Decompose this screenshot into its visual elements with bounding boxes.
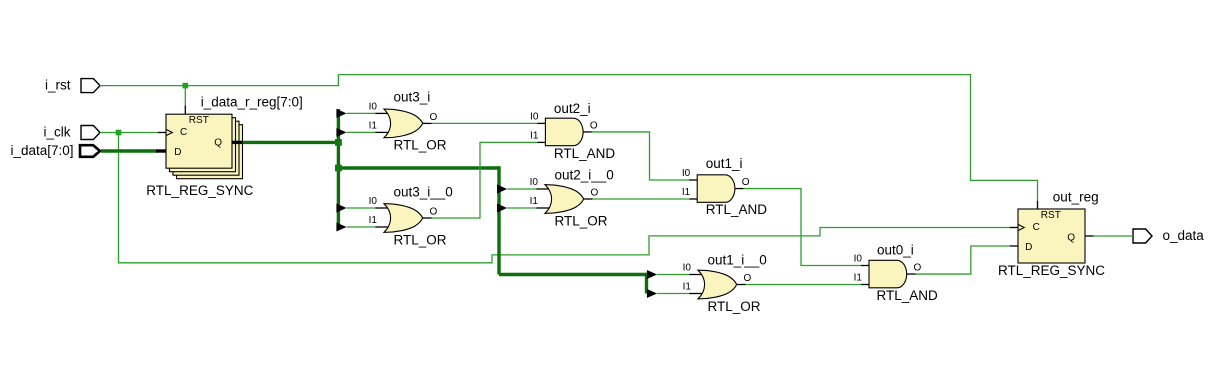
- wire net i_clk: [100, 133, 1018, 263]
- svg-text:O: O: [742, 177, 750, 188]
- svg-text:I1: I1: [683, 282, 692, 293]
- arrow into out3_i I0: [336, 109, 346, 118]
- arrow into out3_i__0 I1: [336, 223, 346, 232]
- svg-text:I1: I1: [369, 215, 378, 226]
- wire out_reg Q to o_data: [1094, 235, 1134, 237]
- junction bus at lower row: [335, 165, 342, 172]
- svg-text:I0: I0: [369, 196, 378, 207]
- svg-text:RTL_OR: RTL_OR: [394, 232, 447, 247]
- arrow into out1_i__0 I1: [647, 289, 657, 298]
- svg-text:RST: RST: [189, 115, 209, 126]
- arrow into out2_i__0 I1: [497, 204, 507, 213]
- svg-text:RTL_OR: RTL_OR: [394, 137, 447, 152]
- svg-text:I1: I1: [369, 120, 378, 131]
- arrow into out1_i__0 I0: [647, 270, 657, 279]
- wire arrow to out3_i I1: [347, 131, 377, 133]
- svg-text:out1_i: out1_i: [706, 156, 743, 171]
- svg-text:RTL_AND: RTL_AND: [877, 288, 939, 303]
- arrow into out3_i I1: [336, 128, 346, 137]
- arrow into out3_i__0 I0: [336, 204, 346, 213]
- svg-text:I0: I0: [683, 263, 692, 274]
- pin stub Q of i_data_r_reg: [232, 141, 243, 144]
- wire arrow to out2_i__0 I1: [507, 207, 537, 209]
- or-gate out2_i__0: [530, 168, 614, 229]
- port i_data[7:0]: [10, 143, 100, 158]
- and-gate out2_i: [530, 101, 615, 161]
- or-gate out1_i__0: [683, 253, 767, 315]
- wire arrow to out2_i__0 I0: [507, 188, 537, 190]
- svg-text:out1_i__0: out1_i__0: [708, 253, 767, 268]
- svg-text:I0: I0: [369, 101, 378, 112]
- svg-text:RST: RST: [1041, 210, 1061, 221]
- and-gate out0_i: [854, 243, 938, 303]
- svg-text:I1: I1: [530, 130, 539, 141]
- svg-text:out2_i__0: out2_i__0: [555, 168, 614, 183]
- svg-text:RTL_OR: RTL_OR: [555, 214, 608, 229]
- svg-text:out0_i: out0_i: [877, 243, 914, 258]
- junction i_rst: [183, 83, 189, 89]
- svg-text:Q: Q: [214, 138, 222, 149]
- svg-text:I0: I0: [530, 177, 539, 188]
- svg-text:D: D: [174, 147, 181, 158]
- wire arrow to out1_i__0 I0: [657, 274, 691, 276]
- port i_clk: [43, 125, 100, 140]
- svg-text:i_rst: i_rst: [45, 78, 71, 93]
- svg-text:C: C: [1033, 222, 1040, 233]
- or-gate out3_i__0: [369, 184, 453, 247]
- svg-text:i_data[7:0]: i_data[7:0]: [10, 143, 73, 158]
- port i_rst: [45, 78, 100, 93]
- svg-text:I1: I1: [530, 196, 539, 207]
- junction bus at Q row: [335, 139, 342, 146]
- svg-text:I0: I0: [682, 168, 691, 179]
- svg-text:out_reg: out_reg: [1053, 190, 1099, 205]
- svg-text:i_data_r_reg[7:0]: i_data_r_reg[7:0]: [201, 95, 303, 110]
- pin stub D of out_reg: [1010, 245, 1018, 247]
- svg-text:o_data: o_data: [1163, 228, 1205, 243]
- svg-text:O: O: [591, 188, 599, 199]
- wire net i_data_r (bus from Q): [243, 109, 647, 294]
- svg-text:D: D: [1025, 242, 1032, 253]
- pin stub Q of out_reg: [1085, 235, 1094, 237]
- wire out2_i O to out1_i I0: [592, 132, 690, 180]
- wire arrow to out3_i I0: [347, 112, 377, 114]
- svg-text:out2_i: out2_i: [554, 101, 591, 116]
- svg-text:out3_i: out3_i: [394, 89, 431, 104]
- wire out3_i O to out2_i I0: [432, 122, 538, 124]
- svg-text:RTL_AND: RTL_AND: [706, 202, 768, 217]
- svg-text:out3_i__0: out3_i__0: [394, 184, 453, 199]
- svg-text:O: O: [430, 207, 438, 218]
- wire net i_data bus: [101, 149, 166, 152]
- svg-text:O: O: [590, 121, 598, 132]
- or-gate out3_i: [369, 89, 447, 152]
- junction i_clk: [116, 130, 122, 136]
- svg-text:C: C: [180, 127, 187, 138]
- svg-text:RTL_REG_SYNC: RTL_REG_SYNC: [998, 263, 1105, 278]
- wire out1_i__0 O to out0_i I1: [746, 284, 862, 286]
- svg-text:O: O: [744, 273, 752, 284]
- svg-text:I1: I1: [854, 273, 863, 284]
- register out_reg: [998, 190, 1105, 278]
- wire out0_i O to out_reg D: [916, 246, 1011, 274]
- svg-text:I0: I0: [854, 253, 863, 264]
- svg-text:O: O: [430, 112, 438, 123]
- svg-text:Q: Q: [1067, 233, 1075, 244]
- svg-text:RTL_OR: RTL_OR: [708, 299, 761, 314]
- wire out1_i O to out0_i I0: [744, 189, 862, 266]
- arrow into out2_i__0 I0: [497, 185, 507, 194]
- wire arrow to out1_i__0 I1: [657, 293, 691, 295]
- svg-text:RTL_REG_SYNC: RTL_REG_SYNC: [146, 183, 253, 198]
- port o_data: [1133, 228, 1204, 243]
- svg-text:i_clk: i_clk: [43, 125, 70, 140]
- wire out2_i__0 O to out1_i I1: [593, 198, 690, 200]
- svg-text:RTL_AND: RTL_AND: [554, 146, 616, 161]
- wire arrow to out3_i__0 I0: [347, 207, 377, 209]
- wire out3_i__0 O to out2_i I1: [432, 142, 538, 218]
- and-gate out1_i: [682, 156, 767, 217]
- wire arrow to out3_i__0 I1: [347, 226, 377, 228]
- register i_data_r_reg[7:0]: [146, 95, 302, 199]
- svg-text:O: O: [914, 263, 922, 274]
- wire net i_rst: [100, 75, 1038, 209]
- svg-text:I1: I1: [682, 187, 691, 198]
- svg-text:I0: I0: [530, 111, 539, 122]
